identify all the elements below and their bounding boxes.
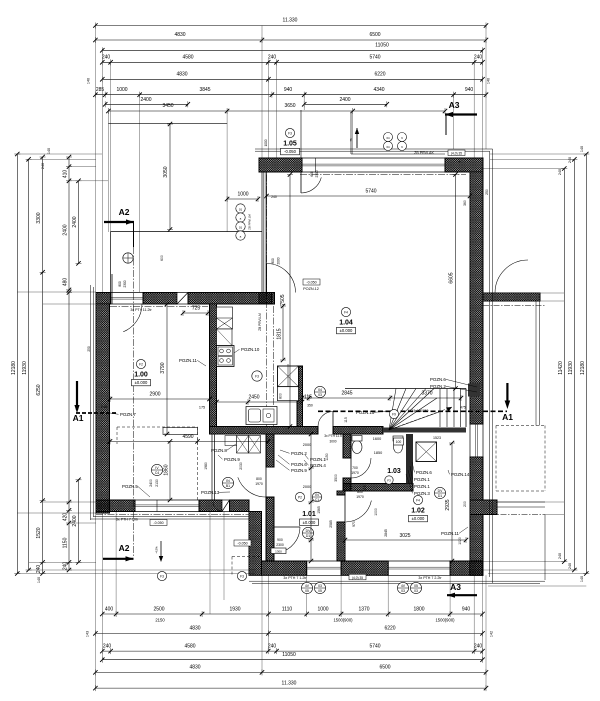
left wing top wall left part [96, 293, 111, 305]
svg-text:3050: 3050 [163, 166, 169, 177]
hall east wall lower [266, 497, 274, 561]
dim 240/4580/240/5740/240 bottom [102, 650, 482, 652]
svg-text:240: 240 [268, 55, 277, 61]
svg-text:142: 142 [490, 631, 494, 637]
svg-text:04: 04 [318, 388, 322, 392]
svg-text:05: 05 [305, 589, 309, 593]
svg-text:1565: 1565 [317, 506, 321, 514]
interior wall main horizontal seg2 [333, 427, 383, 435]
svg-text:800: 800 [118, 281, 122, 287]
dim 11930 right [573, 159, 575, 570]
dim 11930 left [28, 159, 30, 570]
flue opening top wall [177, 293, 188, 305]
step wall vertical [249, 512, 262, 576]
chain line left wing [110, 306, 208, 308]
svg-text:480: 480 [63, 278, 69, 287]
svg-text:1500(900): 1500(900) [333, 618, 353, 623]
svg-text:4830: 4830 [176, 72, 187, 78]
section line A2 vertical [133, 247, 135, 556]
svg-text:1150: 1150 [325, 453, 329, 460]
room 1.00 label [136, 359, 145, 368]
dim 2935 room 1.02 [451, 443, 453, 561]
svg-text:1523: 1523 [433, 436, 441, 440]
porch line vertical 1 [300, 110, 302, 158]
svg-text:ZB PRVI.AK: ZB PRVI.AK [414, 151, 434, 155]
svg-text:F2: F2 [139, 362, 143, 366]
bubble corridor [314, 386, 325, 397]
svg-text:-4,5%: -4,5% [155, 546, 159, 554]
svg-text:03: 03 [318, 393, 322, 397]
svg-text:P2: P2 [298, 495, 302, 499]
svg-text:2845: 2845 [341, 391, 352, 397]
svg-text:F3: F3 [288, 131, 292, 135]
extension lines right [490, 153, 586, 155]
svg-text:1000: 1000 [116, 87, 127, 93]
svg-text:DV: DV [438, 489, 443, 493]
room 1.02 label [413, 495, 422, 504]
svg-text:75: 75 [457, 160, 461, 164]
svg-text:POZN.6: POZN.6 [291, 462, 307, 467]
svg-text:POZN.8: POZN.8 [211, 448, 227, 453]
terrace upper line [108, 122, 227, 124]
svg-text:POZN.1: POZN.1 [310, 457, 326, 462]
svg-text:-0.050: -0.050 [306, 281, 316, 285]
svg-text:1860: 1860 [164, 464, 170, 475]
svg-text:2900: 2900 [149, 392, 160, 398]
svg-text:2300: 2300 [315, 170, 319, 177]
grid bubbles top pair [384, 133, 393, 142]
svg-text:75: 75 [349, 138, 353, 142]
svg-text:11930: 11930 [568, 361, 574, 375]
svg-text:240: 240 [568, 563, 572, 569]
svg-text:IN: IN [226, 479, 230, 483]
roof overhang bottom-left [91, 518, 250, 520]
dim 7505 room 1.04 [289, 175, 291, 427]
dim left col4 top [78, 181, 80, 264]
svg-text:700: 700 [352, 466, 358, 470]
wall 1.01/1.02 upper [337, 491, 345, 495]
svg-text:140: 140 [37, 577, 41, 583]
interior wall main horizontal seg1 [210, 427, 319, 435]
svg-text:4830: 4830 [189, 665, 200, 671]
svg-text:800: 800 [357, 490, 363, 494]
chain line kitchen v1 [265, 175, 267, 427]
porch line horiz [351, 153, 445, 155]
svg-text:140: 140 [47, 148, 51, 154]
exterior wall right low [470, 457, 483, 500]
svg-text:-0.050: -0.050 [284, 149, 297, 154]
kitchen counter south [246, 407, 277, 425]
shaft sub box [278, 387, 299, 401]
svg-text:3300: 3300 [36, 212, 42, 223]
svg-text:410: 410 [63, 170, 69, 179]
dim chain bottom 400..940 [102, 613, 482, 615]
svg-text:1000: 1000 [317, 606, 328, 612]
svg-text:(4,0) 35: (4,0) 35 [352, 576, 363, 580]
svg-text:1500(900): 1500(900) [435, 618, 455, 623]
dim total 11330 top [95, 25, 486, 27]
svg-text:240: 240 [568, 157, 572, 163]
dim 4590 room 1.00 [110, 440, 268, 442]
balcony door 1.04 [267, 264, 296, 293]
svg-text:1.05: 1.05 [283, 140, 297, 147]
door bottom-left small [213, 502, 222, 511]
dim 2400 right [304, 103, 387, 105]
boxed note top [448, 150, 465, 156]
block A left low corner [259, 293, 275, 305]
svg-text:F3: F3 [240, 574, 244, 578]
svg-text:240: 240 [41, 163, 45, 169]
svg-text:1850: 1850 [374, 451, 382, 455]
svg-text:1000: 1000 [264, 139, 268, 146]
exterior wall right bottom [470, 515, 483, 576]
dim chain 285/1000/3845/940/4340/940 [95, 94, 486, 96]
slope arrow [160, 541, 162, 559]
washer dryer boxes [237, 436, 249, 454]
svg-text:1110: 1110 [282, 606, 293, 612]
neighbor dash-dot line [483, 305, 545, 307]
svg-text:250: 250 [87, 346, 91, 352]
svg-text:4580: 4580 [182, 55, 193, 61]
svg-text:ZB PRVI.LM: ZB PRVI.LM [248, 214, 252, 230]
bath west wall [343, 434, 351, 458]
svg-text:285: 285 [96, 87, 105, 93]
dim 1000 terrace [227, 198, 258, 200]
svg-text:140: 140 [487, 78, 491, 84]
svg-text:A1: A1 [502, 412, 513, 422]
svg-text:143: 143 [86, 631, 90, 637]
svg-text:6250: 6250 [36, 384, 42, 395]
svg-text:±0.000: ±0.000 [135, 380, 148, 385]
dim 2645 corridor [302, 397, 461, 399]
svg-text:4V: 4V [401, 584, 406, 588]
svg-text:1970: 1970 [356, 495, 364, 499]
dim 3050 terrace [169, 124, 171, 230]
svg-text:2585: 2585 [329, 520, 333, 528]
exterior wall top (hatched, block A left) [259, 158, 302, 172]
svg-text:240: 240 [268, 643, 277, 649]
svg-text:POZN.1: POZN.1 [414, 484, 430, 489]
svg-text:240: 240 [558, 553, 562, 559]
svg-text:11930: 11930 [22, 361, 28, 375]
svg-text:1300: 1300 [275, 550, 282, 554]
svg-text:05: 05 [414, 584, 418, 588]
svg-text:POZN.6: POZN.6 [416, 470, 432, 475]
svg-text:240: 240 [101, 405, 107, 409]
section marker A1 left [76, 381, 78, 410]
svg-text:5740: 5740 [365, 189, 376, 195]
svg-text:3025: 3025 [399, 533, 410, 539]
svg-text:240: 240 [103, 643, 112, 649]
chain line below bottom wall [96, 514, 249, 516]
svg-text:1370: 1370 [358, 606, 369, 612]
fence line right [535, 301, 537, 426]
kitchen-corridor dark wall [297, 366, 303, 427]
extension lines left [17, 153, 102, 155]
svg-text:6220: 6220 [384, 626, 395, 632]
svg-text:360: 360 [463, 200, 467, 206]
svg-text:POZN.9: POZN.9 [224, 457, 240, 462]
roof overhang top [255, 148, 493, 150]
svg-text:2400: 2400 [72, 515, 78, 526]
svg-text:C1: C1 [315, 498, 319, 502]
exterior wall top right corner [445, 158, 483, 172]
svg-text:1.03: 1.03 [387, 468, 401, 475]
chain line kitchen v2 [273, 306, 275, 426]
svg-text:01: 01 [239, 226, 243, 230]
bath east wall [406, 434, 413, 484]
svg-text:3845: 3845 [199, 87, 210, 93]
svg-text:2400: 2400 [149, 479, 153, 487]
svg-text:11.330: 11.330 [283, 18, 298, 24]
svg-text:1.00: 1.00 [134, 371, 148, 378]
svg-text:600: 600 [160, 255, 164, 261]
svg-text:3x PTh 11.2tr: 3x PTh 11.2tr [130, 308, 152, 312]
bubble hall door [222, 477, 233, 488]
svg-text:1815: 1815 [277, 328, 283, 339]
dim 1860 [169, 441, 171, 500]
svg-text:11420: 11420 [558, 361, 564, 375]
left wing top wall mid [143, 293, 177, 305]
svg-text:115: 115 [363, 485, 367, 491]
door opening left wing top wall [111, 292, 143, 294]
svg-text:140: 140 [87, 78, 91, 84]
right wing bottom wall seg2 [341, 561, 388, 575]
chain line upper floor block A [300, 174, 466, 176]
dim left col4 bottom [78, 480, 80, 563]
svg-text:2030: 2030 [239, 462, 243, 470]
svg-text:F3: F3 [160, 574, 164, 578]
bubbles bottom pair 1 [301, 582, 312, 593]
dim 4830+6220 bottom [95, 632, 482, 634]
svg-text:3790: 3790 [160, 362, 166, 373]
svg-text:400: 400 [105, 606, 114, 612]
svg-text:175: 175 [199, 406, 205, 410]
left wing bottom wall w3 [230, 500, 250, 512]
dim 4830+6500 bottom [95, 671, 486, 673]
dim 6605 room 1.04 right [455, 175, 457, 389]
svg-text:5740: 5740 [369, 55, 380, 61]
grid bubbles terrace [236, 204, 245, 213]
svg-text:A3: A3 [449, 100, 460, 110]
room 1.04 label [341, 307, 350, 316]
shaft label box 100 [394, 438, 404, 445]
grid bubble A2 area [123, 253, 133, 263]
svg-text:240: 240 [474, 55, 483, 61]
roof overhang bottom-right [249, 580, 545, 582]
window right wall [469, 424, 471, 457]
svg-text:-0.050: -0.050 [153, 521, 163, 525]
door left wing top [123, 304, 142, 332]
kitchen west wall [210, 304, 217, 427]
svg-text:800: 800 [279, 393, 283, 399]
svg-text:3x PTH 7 1.2tr: 3x PTH 7 1.2tr [283, 576, 307, 580]
svg-text:POZN.14: POZN.14 [451, 472, 470, 477]
svg-text:1000: 1000 [237, 192, 248, 198]
svg-text:2000: 2000 [303, 485, 311, 489]
dim 12180 right [585, 154, 587, 574]
svg-text:D1: D1 [438, 494, 442, 498]
svg-text:6500: 6500 [369, 32, 380, 38]
svg-text:2450: 2450 [248, 395, 259, 401]
dim 11050 top [102, 49, 482, 51]
svg-text:1520: 1520 [36, 527, 42, 538]
svg-text:3500: 3500 [334, 474, 338, 482]
svg-text:POZN.9: POZN.9 [291, 468, 307, 473]
dim 12180 left [16, 154, 18, 574]
svg-text:140: 140 [580, 576, 584, 582]
svg-text:240: 240 [36, 565, 42, 574]
svg-text:D1: D1 [306, 534, 310, 538]
niche right wall [468, 384, 480, 397]
svg-text:3000: 3000 [329, 440, 336, 444]
dim 2450 kitchen [217, 401, 303, 403]
svg-text:ZB PRVI.LM: ZB PRVI.LM [258, 313, 262, 331]
svg-text:3x PTH 7 10tr: 3x PTH 7 10tr [116, 518, 139, 522]
dashed step outline [232, 556, 262, 558]
svg-text:1000: 1000 [374, 508, 378, 516]
svg-text:2150: 2150 [155, 618, 165, 623]
dim left fine chain [68, 157, 70, 570]
wc 1 [352, 441, 362, 454]
svg-text:1800: 1800 [413, 606, 424, 612]
dim 3025 room 1.02 [345, 539, 466, 541]
svg-text:1970: 1970 [255, 482, 263, 486]
svg-text:420: 420 [63, 513, 69, 522]
svg-text:POZN.13: POZN.13 [201, 490, 220, 495]
svg-text:800: 800 [256, 477, 262, 481]
svg-text:4V: 4V [305, 584, 310, 588]
svg-text:A1: A1 [73, 413, 84, 423]
svg-text:115: 115 [304, 395, 312, 401]
dim 4830+6220 top [102, 78, 482, 80]
svg-text:100: 100 [396, 440, 402, 444]
dashed rect room 1.00 [117, 426, 198, 428]
svg-text:11050: 11050 [375, 43, 389, 49]
svg-text:POZN.6: POZN.6 [430, 377, 446, 382]
svg-text:1970: 1970 [351, 471, 359, 475]
svg-text:240: 240 [271, 195, 277, 199]
svg-text:03: 03 [318, 584, 322, 588]
window bottom 1 [307, 560, 341, 562]
svg-text:1980: 1980 [204, 462, 208, 470]
hall east wall upper [266, 434, 274, 467]
svg-text:-0.050: -0.050 [237, 542, 247, 546]
svg-text:4590: 4590 [182, 434, 193, 440]
kitchen cooktop+sink [217, 346, 235, 367]
terrace edge horizontal [111, 231, 262, 233]
svg-text:1930: 1930 [229, 606, 240, 612]
north arrow [356, 128, 358, 148]
svg-text:4830: 4830 [189, 626, 200, 632]
window bottom 2 [388, 560, 450, 562]
svg-text:F4: F4 [416, 498, 420, 502]
svg-text:2130: 2130 [155, 479, 159, 487]
svg-text:12180: 12180 [580, 361, 586, 375]
radiator 1.01 [271, 548, 286, 554]
svg-text:05: 05 [318, 589, 322, 593]
bubble stair [389, 409, 398, 418]
extension lines top [94, 26, 96, 293]
svg-text:1.01: 1.01 [302, 511, 316, 518]
door arc right exterior [495, 260, 528, 293]
svg-text:2000: 2000 [303, 443, 311, 447]
roof overhang right [492, 149, 494, 583]
svg-text:4340: 4340 [373, 87, 384, 93]
right wing bottom wall seg3 [450, 561, 483, 575]
svg-text:2400: 2400 [140, 97, 151, 103]
terrace edge vertical [110, 232, 112, 293]
svg-text:2300: 2300 [123, 280, 127, 287]
level box kitchen area [303, 279, 320, 285]
svg-text:900: 900 [277, 538, 283, 542]
block A left edge window band [261, 172, 263, 293]
dim 11420 right [563, 169, 565, 562]
bubbles bottom pair 2 [397, 582, 408, 593]
svg-text:5740: 5740 [369, 643, 380, 649]
bubbles bottom wall left [157, 571, 166, 580]
svg-text:1600: 1600 [373, 437, 381, 441]
svg-text:F3: F3 [387, 478, 391, 482]
svg-text:12180: 12180 [11, 361, 17, 375]
svg-text:240: 240 [63, 562, 69, 571]
window left wing bottom [135, 499, 199, 501]
dim total 11330 bottom [95, 687, 486, 689]
svg-text:11050: 11050 [282, 652, 296, 658]
neighbor wall stub right [483, 293, 540, 301]
svg-text:1.04: 1.04 [339, 319, 353, 326]
svg-text:POZN.11: POZN.11 [179, 358, 198, 363]
partition hall west [211, 434, 213, 501]
level box mid [234, 540, 251, 546]
kitchen counter middle [217, 329, 233, 346]
svg-text:POZN.5: POZN.5 [122, 484, 138, 489]
svg-text:01: 01 [239, 208, 243, 212]
svg-text:4580: 4580 [184, 643, 195, 649]
dim 4830+6500 top [95, 39, 486, 41]
bubble kitchen [252, 371, 262, 381]
bubble 1.01 door [302, 527, 313, 538]
svg-text:±0.000: ±0.000 [340, 328, 353, 333]
neighbor lines right low [496, 501, 545, 503]
dim 2900 room 1.00 [110, 398, 210, 400]
svg-text:4830: 4830 [174, 32, 185, 38]
svg-text:POZN.11: POZN.11 [441, 531, 460, 536]
dashed projection right [496, 425, 545, 427]
kitchen tall units [217, 307, 233, 329]
left wing bottom wall w1 [96, 500, 135, 512]
dim 240/4580/240/5740/240 top [102, 61, 482, 63]
dim 1815 kitchen [282, 306, 284, 360]
svg-text:115: 115 [344, 417, 348, 423]
svg-text:2500: 2500 [153, 606, 164, 612]
dim 725 flue [183, 312, 208, 314]
boxed note bottom [349, 574, 366, 580]
svg-text:200: 200 [463, 501, 467, 507]
svg-text:140: 140 [580, 146, 584, 152]
svg-text:04: 04 [386, 136, 390, 140]
svg-text:DV: DV [306, 529, 311, 533]
shaft box kitchen [278, 366, 299, 387]
svg-text:2935: 2935 [445, 499, 451, 510]
svg-text:2400: 2400 [63, 224, 69, 235]
svg-text:B1: B1 [226, 484, 230, 488]
door bath [351, 458, 371, 478]
dim 11050 bottom [102, 659, 482, 661]
roof overhang left wing [90, 285, 92, 520]
svg-text:1150: 1150 [63, 537, 69, 548]
svg-text:240: 240 [474, 643, 483, 649]
